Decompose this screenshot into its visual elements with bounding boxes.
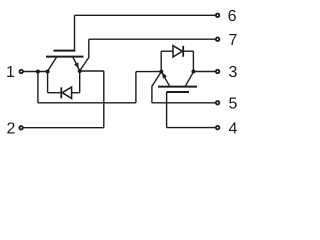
svg-text:3: 3 bbox=[229, 64, 238, 81]
diode D2 cathode bar bbox=[182, 46, 184, 57]
transistor Q2 collector diagonal bbox=[185, 72, 193, 87]
svg-text:6: 6 bbox=[228, 8, 237, 25]
wire pin1 bbox=[23, 71, 48, 73]
wire aux E1 vertical bbox=[88, 39, 90, 57]
transistor Q1 emitter diagonal bbox=[73, 57, 80, 70]
wire bottom long horizontal bbox=[38, 102, 136, 104]
pin terminal circle 1 bbox=[19, 70, 23, 74]
pin terminal circle 5 bbox=[216, 101, 220, 105]
diode D1 triangle bbox=[62, 87, 71, 98]
diode D1 cathode bar bbox=[60, 87, 62, 98]
diode D2 triangle bbox=[173, 46, 182, 57]
wire D1 bottom right bbox=[71, 92, 79, 94]
wire pin6 gate line G1 bbox=[75, 14, 216, 16]
wire D2 right vertical bbox=[192, 51, 194, 71]
wire gate lead Q1 bbox=[74, 15, 76, 51]
wire pin2 bbox=[23, 127, 103, 129]
node dot1 pin1 wire bbox=[36, 70, 40, 74]
wire pin3 bbox=[194, 71, 216, 73]
transistor Q2 gate bar bbox=[167, 91, 189, 93]
transistor Q1 body bar bbox=[46, 56, 84, 58]
pin terminal circle 3 bbox=[216, 70, 220, 74]
wire D1 right vertical bbox=[79, 71, 81, 93]
wire pin7 line aux E1 bbox=[89, 38, 216, 40]
wire E1 vertical down bbox=[103, 71, 105, 128]
transistor Q1 gate bar bbox=[54, 50, 76, 52]
pin terminal circle 2 bbox=[19, 126, 23, 130]
transistor Q1 collector diagonal bbox=[48, 57, 57, 71]
node dot E2 bbox=[159, 70, 163, 74]
wire E2 horizontal bbox=[136, 71, 161, 73]
node dot2 C1 bbox=[46, 70, 50, 74]
wire E1 horizontal bbox=[80, 70, 104, 72]
wire D2 top left bbox=[161, 50, 173, 52]
wire mid vertical up bbox=[135, 72, 137, 103]
transistor Q2 emitter diagonal bbox=[162, 72, 170, 86]
svg-text:1: 1 bbox=[6, 64, 15, 81]
wire aux E2 vertical bbox=[151, 86, 153, 103]
wire node-A vertical from pin1 bbox=[37, 72, 39, 103]
wire pin5 bbox=[152, 102, 216, 104]
pin terminal circle 7 bbox=[216, 37, 220, 41]
wire pin4 bbox=[167, 127, 216, 129]
transistor Q2 emitter arrowhead bbox=[162, 72, 167, 78]
svg-text:7: 7 bbox=[229, 32, 238, 49]
transistor Q1 emitter arrowhead bbox=[74, 62, 79, 68]
wire D1 left vertical bbox=[47, 72, 49, 93]
transistor Q2 body bar bbox=[158, 86, 197, 88]
svg-text:4: 4 bbox=[229, 121, 238, 138]
pin terminal circle 4 bbox=[216, 126, 220, 130]
pin terminal circle 6 bbox=[216, 14, 220, 17]
wire D2 top right bbox=[183, 50, 193, 52]
wire aux E1 diagonal bbox=[80, 57, 89, 71]
node dot C2 bbox=[192, 70, 196, 74]
svg-text:2: 2 bbox=[7, 120, 16, 137]
node dot E1 bbox=[78, 69, 82, 73]
wire aux E2 diagonal bbox=[152, 72, 161, 87]
wire gate lead Q2 bbox=[166, 92, 168, 128]
wire D2 left vertical bbox=[160, 51, 162, 71]
svg-text:5: 5 bbox=[229, 96, 238, 113]
wire D1 bottom left bbox=[48, 92, 61, 94]
